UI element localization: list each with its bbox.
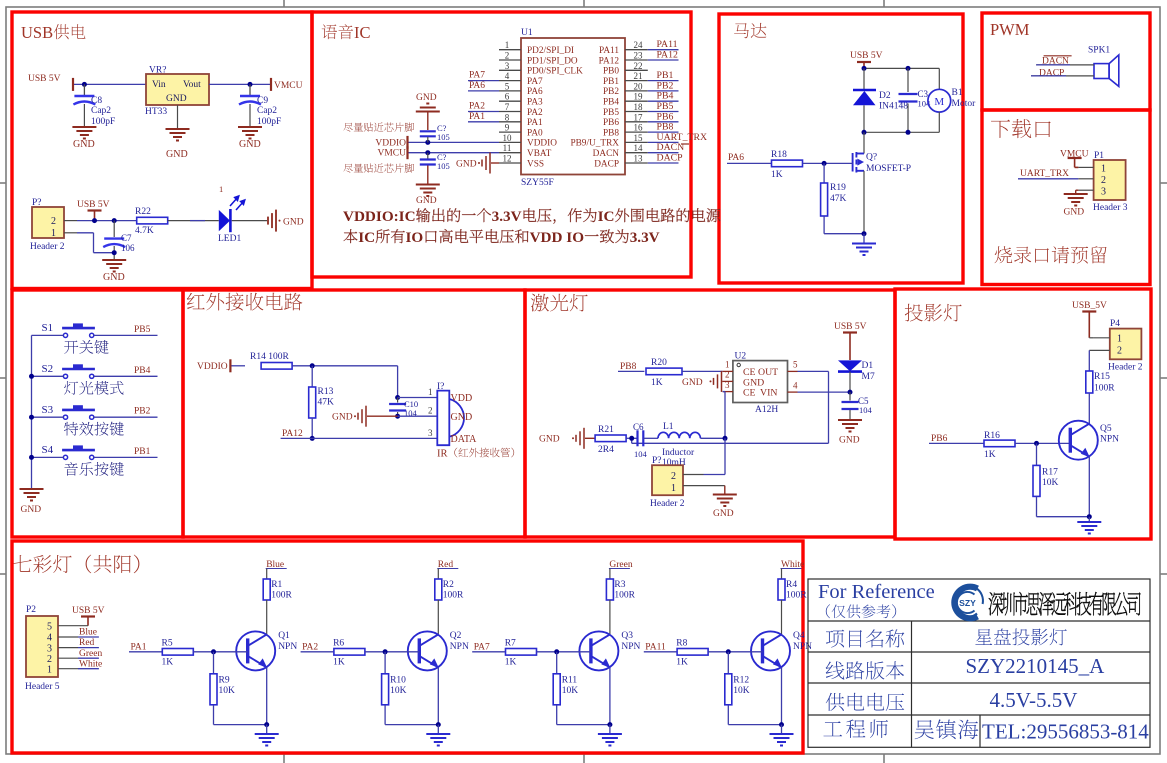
resistor R15 100R (1086, 371, 1093, 393)
svg-text:GND: GND (713, 509, 734, 519)
wire R2 to collector (437, 600, 439, 634)
svg-text:R13: R13 (318, 387, 334, 397)
resistor R6 1K (334, 649, 365, 656)
junction R12 tap (726, 649, 731, 654)
svg-text:MOSFET-P: MOSFET-P (866, 164, 911, 174)
svg-text:2: 2 (51, 216, 56, 227)
svg-text:PB4: PB4 (134, 366, 151, 376)
junction C10 bottom / IR pin2 (395, 414, 400, 419)
capacitor C7 (113, 221, 115, 237)
button column bus wire (31, 335, 33, 489)
wire P4 pin2 to R15 (1088, 350, 1090, 371)
junction top rail left (862, 66, 867, 71)
junction source/ground (862, 231, 867, 236)
U1 pin 21 stub (625, 80, 648, 82)
svg-text:11: 11 (503, 143, 512, 153)
svg-text:PB1: PB1 (134, 447, 151, 457)
svg-text:GND: GND (73, 139, 95, 150)
wire S4 right / net label PB1 (94, 456, 158, 458)
capacitor C? (lower bypass) (427, 153, 429, 159)
svg-text:M7: M7 (862, 372, 875, 382)
junction L1 node (723, 436, 728, 441)
junction bus S4 (29, 455, 34, 460)
DACN overbar (681, 143, 689, 145)
junction C7 bottom (112, 250, 117, 255)
U1 pin 22 stub (625, 69, 648, 71)
svg-text:HT33: HT33 (145, 107, 167, 117)
junction PA12 row (310, 436, 315, 441)
title 马达 (734, 23, 749, 38)
net label White / wire P2 pin1 (58, 668, 78, 670)
IC U2 A12H body (733, 361, 788, 403)
junction R17 tap (1034, 441, 1039, 446)
svg-text:S1: S1 (42, 322, 54, 334)
svg-text:Q3: Q3 (621, 631, 633, 641)
wire Blue to R1 (266, 569, 268, 570)
svg-text:PA11: PA11 (599, 46, 619, 56)
ground button bus GND (20, 489, 44, 501)
svg-text:USB: USB (21, 23, 53, 42)
svg-text:PA7: PA7 (469, 71, 485, 81)
svg-text:3: 3 (505, 61, 510, 71)
svg-text:GND: GND (166, 149, 188, 160)
svg-text:PB0: PB0 (603, 67, 619, 77)
ground (blue earth, Q1) (266, 725, 268, 734)
net label Green / wire P2 pin2 (58, 657, 78, 659)
svg-text:18: 18 (634, 102, 644, 112)
wire S2 left (32, 375, 64, 377)
svg-text:S3: S3 (42, 404, 54, 416)
U1 pin 17 stub (625, 121, 648, 123)
section box: PWM (982, 13, 1150, 110)
svg-text:PA11: PA11 (645, 642, 666, 652)
wire R9 to emitter (213, 705, 215, 725)
svg-text:105: 105 (437, 132, 450, 142)
svg-text:5: 5 (505, 81, 510, 91)
svg-text:VR?: VR? (149, 66, 166, 76)
svg-text:SZY2210145_A: SZY2210145_A (966, 654, 1106, 678)
svg-text:Vin: Vin (152, 80, 166, 90)
svg-text:UART_TRX: UART_TRX (657, 132, 708, 143)
value 吴镇海 (915, 720, 934, 739)
svg-text:10K: 10K (1042, 478, 1059, 488)
svg-text:Header 2: Header 2 (30, 242, 65, 252)
net label PB5 / wire from U1 pin 18 (648, 111, 679, 113)
svg-text:SPK1: SPK1 (1088, 46, 1110, 56)
svg-text:VDDIO: VDDIO (527, 139, 557, 149)
svg-text:19: 19 (634, 92, 644, 102)
resistor R3 100R (606, 579, 613, 600)
junction emitter/ground (1087, 514, 1092, 519)
wire header pin2 to R22 (77, 220, 137, 222)
svg-text:R3: R3 (614, 580, 625, 590)
svg-text:4: 4 (505, 71, 510, 81)
wire R17 to emitter/ground (1036, 497, 1038, 517)
svg-text:21: 21 (634, 71, 643, 81)
section box: voice IC (312, 12, 691, 277)
svg-text:R2: R2 (443, 580, 454, 590)
U1 pin 4 stub (499, 80, 521, 82)
wire S1 right / net label PB5 (94, 334, 158, 336)
svg-text:GND: GND (166, 94, 187, 104)
svg-text:16: 16 (634, 123, 644, 133)
junction emitter Q4 (779, 722, 784, 727)
svg-text:R12: R12 (733, 676, 749, 686)
svg-text:NPN: NPN (621, 642, 640, 652)
U2 pin5 stub (788, 370, 798, 372)
svg-text:CE: CE (743, 388, 756, 399)
svg-text:PD1/SPI_DO: PD1/SPI_DO (527, 56, 578, 66)
svg-text:VDDIO:IC: VDDIO:IC (343, 208, 416, 225)
section box: buttons (12, 290, 183, 537)
svg-text:3: 3 (1101, 187, 1106, 198)
wire header pin1 to C7 bottom (77, 232, 94, 234)
svg-text:PB1: PB1 (603, 77, 619, 87)
wire header P? pin2 riser (724, 438, 726, 474)
U1 pin 3 stub (499, 69, 521, 71)
svg-text:1: 1 (1117, 334, 1122, 345)
svg-text:Q5: Q5 (1100, 424, 1112, 434)
U1 pin 16 stub (625, 131, 648, 133)
svg-text:PA0: PA0 (527, 128, 543, 138)
junction loop/R21 (629, 436, 634, 441)
resistor R7 1K (506, 649, 537, 656)
ground C5 GND (838, 420, 862, 432)
net label Blue / wire P2 pin4 (58, 636, 78, 638)
U1 pin 19 stub (625, 100, 648, 102)
svg-text:DATA: DATA (451, 434, 478, 445)
svg-text:S4: S4 (42, 444, 54, 456)
resistor R11 10K (556, 652, 558, 674)
svg-text:4: 4 (47, 633, 52, 644)
regulator ground lead (177, 105, 179, 129)
svg-text:DACN: DACN (593, 149, 620, 159)
label 项目名称 (826, 630, 844, 648)
resistor R8 1K (677, 649, 708, 656)
svg-text:2: 2 (1117, 346, 1122, 357)
svg-text:GND: GND (451, 412, 473, 423)
svg-text:GND: GND (682, 378, 703, 388)
svg-text:1: 1 (428, 387, 433, 397)
transistor Q1 NPN (236, 631, 275, 670)
wire R12 to emitter (727, 705, 729, 725)
svg-text:3: 3 (47, 644, 52, 655)
svg-text:R19: R19 (830, 183, 846, 193)
U1 pin 12 stub (499, 162, 521, 164)
wire motor top rail (864, 67, 939, 69)
svg-text:1K: 1K (771, 170, 783, 180)
U1 pin 6 stub (499, 100, 521, 102)
svg-text:PB6: PB6 (931, 434, 948, 444)
diode D1 M7 (838, 360, 862, 371)
svg-text:10K: 10K (733, 686, 750, 696)
section box: motor (719, 14, 963, 283)
svg-text:R22: R22 (135, 207, 151, 217)
label 供电电压 (826, 693, 845, 711)
title 红外接收电路 (187, 293, 205, 309)
svg-text:3: 3 (428, 428, 433, 438)
resistor R2 100R (435, 579, 442, 600)
svg-text:PB5: PB5 (134, 325, 151, 335)
svg-text:GND: GND (416, 93, 437, 103)
svg-text:PA2: PA2 (527, 108, 543, 118)
U1 pin 15 stub (625, 141, 648, 143)
note 尽量贴近芯片脚 (lower) (343, 164, 352, 173)
wire R5 to base (193, 651, 247, 653)
svg-text:GND: GND (332, 413, 353, 423)
svg-text:100pF: 100pF (91, 117, 115, 127)
U1 pin 9 stub (499, 131, 521, 133)
svg-text:PB8: PB8 (603, 128, 619, 138)
section box: IR receiver (183, 290, 525, 537)
U1 pin 10 stub (499, 141, 521, 143)
wire R21 to C6 (626, 437, 637, 439)
label 线路版本 (826, 661, 845, 679)
net label PB8 / wire from U1 pin 16 (648, 131, 679, 133)
svg-text:D2: D2 (879, 91, 891, 101)
svg-text:R11: R11 (562, 676, 578, 686)
wire S2 right / net label PB4 (94, 375, 158, 377)
svg-text:2: 2 (428, 406, 433, 416)
svg-text:24: 24 (634, 40, 644, 50)
ground (blue earth, motor) (863, 234, 865, 243)
svg-text:GND: GND (103, 272, 125, 283)
svg-text:White: White (79, 659, 102, 669)
wire motor bottom rail (864, 131, 939, 133)
svg-text:Green: Green (79, 649, 102, 659)
svg-text:NPN: NPN (793, 642, 812, 652)
svg-text:PB2: PB2 (603, 87, 619, 97)
junction bus S3 (29, 415, 34, 420)
resistor R19 (823, 163, 825, 183)
svg-text:IN4148: IN4148 (879, 102, 908, 112)
resistor R20 1K (646, 368, 682, 375)
U1 pin 23 stub (625, 59, 648, 61)
resistor R16 1K (984, 440, 1015, 447)
svg-text:100R: 100R (443, 591, 464, 601)
svg-text:GND: GND (1064, 208, 1085, 218)
wire emitter down Q2 (437, 667, 439, 724)
resistor R1 100R (263, 579, 270, 600)
LED LED1 (219, 210, 230, 231)
svg-text:TEL:29556853-814: TEL:29556853-814 (982, 720, 1149, 744)
svg-text:100R: 100R (1094, 384, 1115, 394)
svg-text:P2: P2 (26, 605, 36, 615)
junction C9 tap (248, 82, 253, 87)
wire emitter down Q3 (609, 667, 611, 724)
wire R8 to base (708, 651, 762, 653)
wire R18 to gate (803, 162, 853, 164)
svg-text:M: M (934, 96, 944, 108)
net label UART_TRX / wire from U1 pin 15 (648, 141, 679, 143)
resistor R9 10K (213, 652, 215, 674)
junction USB5V stem (92, 218, 97, 223)
svg-text:Cap2: Cap2 (257, 106, 277, 116)
junction C8 tap (82, 82, 87, 87)
junction C7 top (112, 218, 117, 223)
wire drain (863, 132, 865, 153)
junction D1 node (848, 390, 853, 395)
svg-text:VDDIO: VDDIO (375, 138, 406, 148)
svg-text:PA12: PA12 (657, 50, 679, 61)
svg-text:PB5: PB5 (603, 108, 619, 118)
svg-text:C3: C3 (918, 89, 929, 99)
svg-text:1: 1 (725, 360, 730, 370)
svg-text:10K: 10K (219, 686, 236, 696)
company name 深圳市思泽远科技有限公司 (989, 592, 1003, 615)
U1 pin 8 stub (499, 121, 521, 123)
svg-text:1K: 1K (984, 450, 996, 460)
capacitor C9 (249, 84, 251, 95)
motor B1 (928, 89, 951, 112)
svg-text:Blue: Blue (79, 628, 97, 638)
svg-text:Inductor: Inductor (662, 448, 695, 458)
svg-text:IR: IR (437, 449, 448, 460)
ground GND under C7 (102, 260, 126, 272)
svg-text:NPN: NPN (1100, 435, 1119, 445)
svg-text:R9: R9 (219, 676, 230, 686)
junction C3 top (906, 66, 911, 71)
capacitor C5 104 (849, 392, 851, 400)
svg-text:1K: 1K (676, 658, 688, 668)
svg-text:PA2: PA2 (469, 102, 485, 112)
title 语音IC (322, 24, 337, 39)
svg-text:Header 5: Header 5 (25, 682, 60, 692)
wire R3 to collector (609, 600, 611, 634)
net label PB1 / wire from U1 pin 21 (648, 80, 679, 82)
svg-text:6: 6 (505, 92, 510, 102)
U1 pin 20 stub (625, 90, 648, 92)
svg-text:PA3: PA3 (527, 98, 543, 108)
resistor R18 (772, 160, 803, 167)
svg-text:Header 3: Header 3 (1093, 203, 1128, 213)
regulator VR? HT33 (146, 74, 209, 105)
U2 pin3 stub (723, 391, 733, 393)
svg-text:PD0/SPI_CLK: PD0/SPI_CLK (527, 67, 583, 77)
svg-text:R18: R18 (771, 150, 787, 160)
svg-text:13: 13 (634, 154, 644, 164)
svg-text:R5: R5 (162, 639, 173, 649)
svg-text:PA7: PA7 (527, 77, 543, 87)
svg-text:IC: IC (598, 208, 615, 225)
svg-text:47K: 47K (830, 194, 847, 204)
pin stubs P4 (1094, 337, 1110, 339)
svg-text:IC: IC (354, 23, 371, 42)
wire R20 to U2 pin1 (682, 370, 723, 372)
wire emitter down Q4 (781, 667, 783, 724)
wire R1 to collector (266, 600, 268, 634)
net label DACN / wire from U1 pin 14 (648, 152, 679, 154)
svg-text:A12H: A12H (755, 405, 778, 415)
（仅供参考） (826, 604, 830, 618)
wire VDDIO to U1 pin10 (409, 141, 500, 143)
wire R16 to base (1015, 442, 1070, 444)
svg-text:VMCU: VMCU (377, 149, 406, 159)
svg-text:R8: R8 (676, 639, 687, 649)
svg-text:C6: C6 (633, 422, 644, 432)
U1 pin 5 stub (499, 90, 521, 92)
svg-text:Q2: Q2 (450, 631, 462, 641)
junction emitter Q3 (607, 722, 612, 727)
svg-text:47K: 47K (318, 398, 335, 408)
U1 pin 11 stub (499, 152, 521, 154)
svg-text:R7: R7 (505, 639, 516, 649)
svg-text:Header 2: Header 2 (1108, 363, 1143, 373)
label 工程师 (823, 721, 842, 736)
svg-text:3.3V: 3.3V (492, 208, 522, 225)
pin stubs P? (64, 220, 77, 222)
svg-text:GND: GND (839, 436, 860, 446)
ground GND under C9 (238, 127, 262, 139)
resistor R5 1K (162, 649, 193, 656)
annotation line2 (344, 229, 358, 243)
ground GND below bypass cap (427, 166, 429, 185)
wire P2 pin5 (58, 625, 88, 627)
svg-text:Q4: Q4 (793, 631, 805, 641)
svg-text:104: 104 (634, 449, 648, 459)
svg-text:IC: IC (358, 229, 375, 246)
svg-text:VBAT: VBAT (527, 149, 552, 159)
resistor R12 10K (727, 652, 729, 674)
svg-text:R15: R15 (1094, 372, 1110, 382)
svg-text:VDD: VDD (451, 393, 473, 404)
wire R15 to collector (1088, 393, 1090, 424)
junction emitter Q2 (436, 722, 441, 727)
svg-text:PB2: PB2 (134, 407, 151, 417)
svg-text:15: 15 (634, 133, 644, 143)
U2 pin1 stub (723, 370, 733, 372)
svg-text:PA2: PA2 (302, 642, 318, 652)
resistor R13 47K (311, 366, 313, 388)
junction bypass cap bottom (425, 150, 430, 155)
wire C6 to L1 (643, 437, 658, 439)
wire Vout to VMCU (209, 83, 271, 85)
wire emitter down (1088, 457, 1090, 517)
svg-text:Header 2: Header 2 (650, 499, 685, 509)
wire S3 right / net label PB2 (94, 416, 158, 418)
svg-text:Cap2: Cap2 (91, 106, 111, 116)
wire USB5V to Vin (74, 83, 146, 85)
pin stubs P? laser (683, 474, 704, 476)
ground GND under regulator (166, 129, 190, 141)
svg-text:PB4: PB4 (603, 98, 619, 108)
wire VMCU to U1 pin11 (409, 152, 500, 154)
transistor Q4 NPN (751, 631, 790, 670)
svg-text:DACP: DACP (594, 159, 619, 169)
svg-text:VDD IO: VDD IO (530, 229, 585, 246)
title 下载口 (991, 120, 1010, 138)
svg-text:DACP: DACP (1039, 69, 1064, 79)
junction R11 tap (554, 649, 559, 654)
section box: laser (525, 290, 895, 537)
wire R14 to corner (292, 365, 397, 367)
value 星盘投影灯 (975, 629, 992, 645)
svg-text:10: 10 (503, 133, 513, 143)
ground P? pin1 (704, 485, 725, 487)
resistor R14 100R (261, 363, 292, 370)
section box: RGB LEDs (12, 541, 803, 753)
junction IR pin1 node (395, 395, 400, 400)
svg-text:1: 1 (505, 40, 510, 50)
svg-text:1: 1 (1101, 164, 1106, 175)
svg-text:R17: R17 (1042, 468, 1058, 478)
svg-text:PA1: PA1 (469, 112, 485, 122)
svg-text:2R4: 2R4 (598, 445, 614, 455)
svg-text:R16: R16 (984, 431, 1000, 441)
net label PB6 / wire from U1 pin 17 (648, 121, 679, 123)
svg-text:R4: R4 (786, 580, 797, 590)
ground (blue earth, Q4) (781, 725, 783, 734)
